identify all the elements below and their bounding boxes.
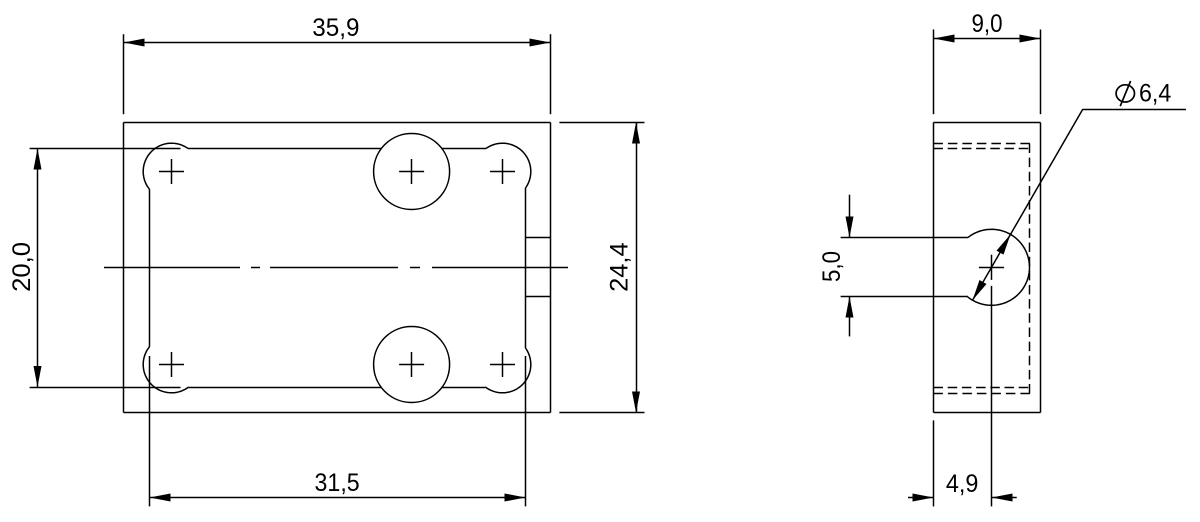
svg-text:31,5: 31,5 xyxy=(315,469,360,497)
svg-text:6,4: 6,4 xyxy=(1139,80,1171,108)
svg-text:4,9: 4,9 xyxy=(946,470,979,498)
svg-text:35,9: 35,9 xyxy=(312,14,359,42)
svg-text:5,0: 5,0 xyxy=(818,251,846,282)
svg-text:9,0: 9,0 xyxy=(971,10,1002,38)
svg-text:24,4: 24,4 xyxy=(606,242,634,292)
svg-text:20,0: 20,0 xyxy=(8,242,36,292)
